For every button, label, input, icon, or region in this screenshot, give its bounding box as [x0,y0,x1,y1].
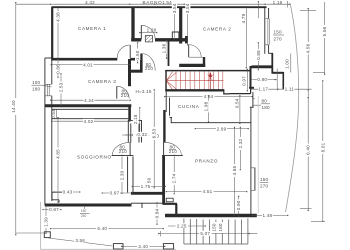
dim 1.36 [166,42,168,57]
dim 4.85 pranzo [234,129,236,213]
wall east parapet vertical [282,72,284,89]
wall hall west upper [168,42,170,67]
svg-text:80: 80 [262,99,268,104]
svg-text:2.40: 2.40 [138,244,148,249]
svg-text:4.38: 4.38 [56,12,61,22]
svg-text:0.90: 0.90 [236,200,241,210]
dim 3.56 diagonal leader [49,238,113,246]
wall east exterior cucina/pranzo main [250,107,252,214]
svg-text:3.56: 3.56 [75,238,85,243]
svg-text:1.48: 1.48 [263,213,273,218]
dim 1.28 bagno door [142,32,156,34]
svg-text:1.54: 1.54 [162,0,172,5]
svg-text:6.40: 6.40 [306,145,311,155]
svg-text:1.39: 1.39 [44,217,49,227]
niche box left of bagno east wall [172,32,179,39]
dim 2.89 [197,128,247,130]
wall pranzo bottom [165,214,257,217]
dim 2.40 porch [123,245,163,247]
window pranzo east [254,168,256,191]
stairs top border [165,70,251,72]
wall east exterior camera2 (double with window) [264,8,266,54]
dim 2.25 ext stairs [168,225,204,227]
window camera3 west [45,84,52,96]
dim 0.86 left [57,61,59,76]
dim 6.53 hall [153,92,155,187]
terrace faint edge east [257,96,259,214]
svg-text:14.40: 14.40 [11,100,16,113]
balcony curved edge [286,3,299,212]
svg-text:6.53: 6.53 [152,128,157,138]
svg-text:2.89: 2.89 [217,126,227,131]
dim 2.74 pranzo left [173,157,175,192]
svg-text:8.01: 8.01 [320,142,325,152]
dim 0.87 [45,209,60,211]
dim 1.17 [253,88,277,90]
svg-text:0.32: 0.32 [137,132,147,137]
stairs winder fan [166,72,176,91]
svg-text:2.30: 2.30 [120,170,125,180]
svg-text:0.54: 0.54 [51,109,56,119]
svg-text:2.18: 2.18 [133,114,138,124]
wall camera1/bagno divider [131,7,134,42]
dim top line 1.54 [157,3,183,5]
door soggiorno (arc+sill) [112,142,130,155]
svg-text:150: 150 [212,223,217,232]
dim 0.90 [238,198,240,215]
svg-text:6.40: 6.40 [97,226,107,231]
wall vestibule bottom [179,64,205,67]
svg-text:5.56: 5.56 [322,26,327,36]
wall soggiorno east (double) [128,157,133,193]
svg-text:1.28: 1.28 [147,28,157,33]
svg-text:4.85: 4.85 [56,149,61,159]
label 150/270 pranzo window rotated [260,177,269,188]
svg-text:3.54: 3.54 [185,3,190,13]
svg-text:270: 270 [274,37,283,42]
pillar bottom-left [44,232,50,238]
svg-text:210: 210 [119,149,128,154]
terrace edge line below corridor [131,203,165,208]
wall corridor west stub [128,105,131,121]
wall soggiorno bottom [45,204,132,207]
stairs middle landing line [166,80,223,82]
svg-text:180: 180 [262,105,271,110]
svg-text:0.88: 0.88 [256,50,261,60]
door camera2 (leaf+arc) [188,45,190,58]
dim 2.32 pranzo [239,129,241,168]
door camera1 (leaf+arc) [129,45,131,58]
svg-text:4.01: 4.01 [83,62,93,67]
svg-text:0.43: 0.43 [63,189,73,194]
wall camera2 bottom right [252,65,273,68]
svg-text:4.51: 4.51 [203,189,213,194]
wall west exterior (double) [44,58,46,206]
svg-text:1.18: 1.18 [273,0,283,5]
wall camera3 bottom (4.24 wall) [45,104,131,107]
svg-text:SOGGIORNO: SOGGIORNO [77,155,112,160]
wall hall door jamb [140,54,143,71]
dim 5.07 ext stairs [161,233,248,235]
porch pillar right [163,244,173,249]
dim 0.97 bottom [104,192,131,194]
svg-text:5.07: 5.07 [200,231,210,236]
hatched sill block bagno door [145,36,152,42]
dim 0.84 [156,205,158,223]
dim 1.39 rotated [45,208,47,232]
svg-text:H=3.15: H=3.15 [136,89,152,94]
svg-text:0.54: 0.54 [235,98,240,108]
wall pranzo west step bottom [162,204,177,214]
wall east exterior cucina upper [252,92,254,107]
dim 2.18 [139,110,141,134]
svg-text:1.50: 1.50 [135,50,140,60]
porch slab gray outline [41,202,176,249]
wall camera1 bottom [51,58,117,61]
window camera2 east [265,19,270,45]
dim 4.02 [54,120,129,122]
svg-text:CUCINA: CUCINA [178,104,200,109]
dim 1.00 [290,54,292,73]
dim 6.40 right [307,88,309,99]
svg-text:CAMERA 1: CAMERA 1 [78,26,106,31]
door bagno (leaf+arc) [140,25,142,39]
svg-text:150: 150 [81,209,87,213]
svg-text:4.24: 4.24 [84,98,94,103]
wall camera1 west [51,7,53,59]
dim 0.80 [253,79,274,81]
svg-text:180: 180 [218,223,223,232]
svg-text:4.56: 4.56 [306,43,311,53]
dim 2.50 corridor small [147,177,152,187]
svg-text:PRANZO: PRANZO [195,158,218,163]
dim 0.97 stairwell [246,71,248,89]
svg-text:2.74: 2.74 [172,173,177,183]
wall cucina bottom [171,122,251,124]
wall soggiorno bottom inner step [52,192,64,202]
wall corridor east above door [163,110,165,142]
wall corridor bottom [131,192,165,195]
dim 1.48 [254,214,286,216]
dim 4.24 [53,99,129,101]
svg-text:1.98: 1.98 [204,101,209,111]
dim 3.54 camera2 left [187,9,189,44]
wall cucina west (double) [165,90,167,112]
svg-text:CAMERA 3: CAMERA 3 [88,79,116,84]
svg-text:3.54: 3.54 [172,3,177,13]
dim 14.40 vertical line [15,4,17,233]
svg-text:150: 150 [260,177,269,182]
svg-text:4.02: 4.02 [84,119,94,124]
dim 1.11 [276,88,311,90]
svg-text:BAGNO: BAGNO [143,0,163,5]
wall vestibule east [203,57,205,67]
svg-text:210: 210 [169,149,178,154]
wall soggiorno top thin face [52,109,129,118]
svg-text:CAMERA 2: CAMERA 2 [203,27,231,32]
shaft between soggiorno and corridor [128,120,141,143]
wall bagno bottom right segment [155,38,188,41]
label 150/250 porch door [80,207,90,218]
svg-text:0.87: 0.87 [49,207,59,212]
dim top line 4.32 [52,3,128,5]
svg-text:0.84: 0.84 [155,208,160,218]
dim 14.40 label [10,98,17,115]
wall shaft east of stairs [250,66,252,88]
dim 1.98 cucina rotated [207,98,209,121]
svg-text:0.97: 0.97 [110,190,120,195]
svg-text:1.36: 1.36 [162,43,167,53]
svg-text:270: 270 [260,184,269,189]
svg-text:2.53: 2.53 [59,82,64,92]
wall bagno east / camera2 west [179,7,182,44]
svg-text:0.97: 0.97 [242,76,247,86]
wall east jog at cucina [250,106,254,108]
wall below camera1 door area [130,70,143,73]
svg-text:2.25: 2.25 [177,223,187,228]
wall top exterior (camera1/bagno/camera2) [52,6,267,8]
dim 4.64 [166,96,250,98]
dim 0.88 [257,4,259,19]
dim 2.53 left [60,76,62,104]
dim 5.56 [324,2,326,73]
door hall (arc) [143,54,155,71]
svg-text:1.00: 1.00 [285,59,290,69]
svg-text:1.17: 1.17 [258,87,268,92]
dim 4.01 camera3 [53,64,128,66]
dim 0.54 wall cavity left [55,110,57,119]
svg-text:0.86: 0.86 [56,64,61,74]
door camera3 (leaf+arc) [116,86,118,98]
svg-text:4.32: 4.32 [85,0,95,5]
svg-text:100: 100 [32,80,41,85]
wall camera3 east [128,59,131,86]
dim 3.54 bagno [173,9,175,38]
window cucina east ticks [252,99,261,105]
dim 4.85 left soggiorno [57,119,59,200]
wall jamb camera2 door [185,36,188,43]
wall corridor east below door / pranzo west [162,156,165,204]
wall bagno bottom left segment [131,38,141,41]
stairs left border [165,71,167,91]
svg-text:4.85: 4.85 [232,165,237,175]
dim 0.32 shaft [122,134,149,136]
door corridor-pranzo (arc+sill) [164,142,182,155]
svg-text:0.80: 0.80 [257,77,267,82]
dim 4.38 left [57,9,59,57]
svg-text:2.32: 2.32 [238,138,243,148]
dim 4.56 [307,10,309,88]
dim 6.40 bottom [52,228,161,230]
step west wall top connector [45,57,52,59]
svg-text:180: 180 [32,86,41,91]
dim 0.43 [56,191,78,193]
dim 1.75 corridor [134,185,164,187]
stairs red arrow [208,72,214,89]
stairs red treads two flights [166,72,223,91]
porch pillar left [113,244,123,249]
external stairs bottom [184,219,248,245]
dim 4.51 [168,191,245,193]
svg-text:1.75: 1.75 [141,184,151,189]
dim 0.54 [239,98,241,122]
stairs bottom border [165,89,224,91]
wall east jog horizontal [271,53,273,73]
labels 150 180 ext stairs rotated [211,222,217,233]
dim 1.50 camera1 door [137,45,139,62]
svg-text:150: 150 [274,30,283,35]
svg-text:210: 210 [145,66,154,71]
svg-text:210: 210 [121,93,130,98]
niche box pranzo west step [166,198,173,202]
wall cucina west jog [170,116,173,118]
dim top line 1.18 [267,3,288,5]
svg-text:250: 250 [81,214,87,218]
svg-text:4.79: 4.79 [241,13,246,23]
dim 4.79 camera2 [245,9,247,67]
dim 8.01 right [322,83,324,220]
svg-text:1.11: 1.11 [285,87,295,92]
dim 2.30 soggiorno [121,157,123,192]
